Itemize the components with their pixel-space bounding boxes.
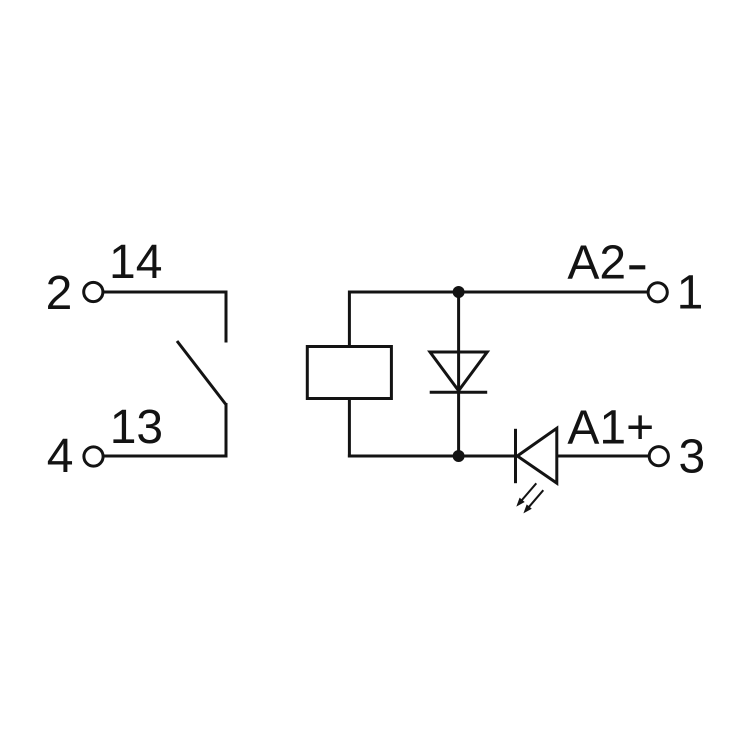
relay coil [307, 347, 391, 399]
wire switch bottom vertical [225, 403, 228, 458]
node junction bottom [453, 450, 465, 462]
terminal 2 circle [84, 282, 103, 301]
wire coil left vertical bottom [348, 399, 351, 458]
svg-text:13: 13 [110, 401, 163, 454]
node junction top [453, 286, 465, 298]
svg-text:A2: A2 [567, 237, 626, 290]
svg-text:A1+: A1+ [567, 402, 654, 455]
svg-text:2: 2 [46, 267, 73, 320]
wire from switch to terminal 4 [103, 455, 227, 458]
wire switch fixed contact vertical [225, 291, 228, 343]
terminal 1 circle [648, 283, 667, 302]
LED cathode bar [514, 429, 517, 483]
terminal 3 circle [649, 447, 668, 466]
wire coil left vertical top [348, 291, 351, 349]
svg-text:4: 4 [47, 430, 74, 483]
wire from terminal 2 to switch [103, 291, 226, 294]
LED triangle [517, 428, 557, 483]
label A2 minus dash [629, 265, 645, 269]
wire top rail A2 [349, 291, 647, 294]
diode D freewheeling triangle [430, 352, 487, 391]
LED light emission arrow 2 [528, 490, 543, 508]
wire LED to terminal 3 [557, 455, 649, 458]
terminal 4 circle [84, 447, 103, 466]
switch arm contact 14-13 [177, 341, 226, 404]
svg-text:1: 1 [677, 267, 704, 320]
svg-text:14: 14 [109, 236, 162, 289]
svg-text:3: 3 [679, 431, 706, 484]
wire diode branch vertical [457, 292, 460, 456]
LED light emission arrow 1 [521, 483, 536, 501]
wire bottom rail A1 [348, 455, 515, 458]
diode D cathode bar [430, 391, 488, 394]
